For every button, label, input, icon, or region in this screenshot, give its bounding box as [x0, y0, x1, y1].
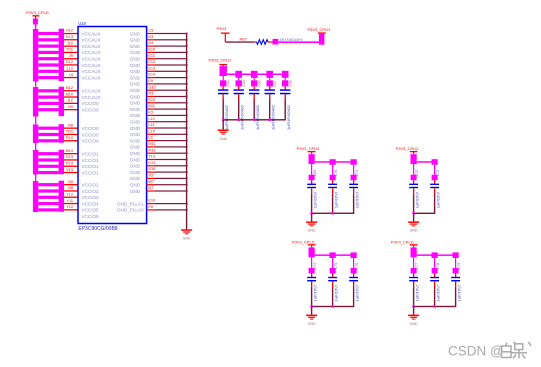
- svg-text:GND: GND: [308, 322, 316, 326]
- svg-text:1uF/16V/0402: 1uF/16V/0402: [286, 104, 291, 130]
- svg-text:VCCAUX: VCCAUX: [82, 89, 101, 94]
- svg-text:CSDN @: CSDN @: [448, 344, 504, 359]
- svg-text:E11: E11: [148, 54, 154, 58]
- svg-text:GND: GND: [130, 189, 141, 194]
- svg-text:1uF/16V/: 1uF/16V/: [457, 284, 462, 301]
- svg-text:VCCIO2: VCCIO2: [82, 189, 100, 194]
- svg-text:R11: R11: [66, 130, 73, 134]
- svg-text:GND: GND: [130, 82, 141, 87]
- svg-text:VCCIO0: VCCIO0: [82, 126, 100, 131]
- svg-text:P3V3_CPLD: P3V3_CPLD: [26, 10, 49, 15]
- svg-text:V13: V13: [66, 168, 73, 172]
- svg-text:G10: G10: [148, 85, 155, 89]
- svg-text:GND: GND: [130, 132, 141, 137]
- svg-text:1uF/16V/: 1uF/16V/: [415, 191, 420, 208]
- svg-text:H12: H12: [66, 29, 73, 33]
- svg-text:L9: L9: [69, 73, 73, 77]
- svg-text:P3V3_CPLD: P3V3_CPLD: [391, 239, 414, 244]
- svg-text:R67: R67: [240, 36, 248, 41]
- svg-text:VCCIO1: VCCIO1: [82, 158, 100, 163]
- svg-text:N7: N7: [148, 186, 153, 190]
- svg-text:K13: K13: [66, 35, 73, 39]
- svg-text:VCCAUX: VCCAUX: [82, 63, 101, 68]
- svg-text:GND: GND: [130, 157, 141, 162]
- svg-text:P3V3_CPLD: P3V3_CPLD: [396, 146, 419, 151]
- svg-text:J9: J9: [69, 54, 73, 58]
- svg-text:H9: H9: [68, 105, 73, 109]
- svg-text:1uF/16V/: 1uF/16V/: [334, 191, 339, 208]
- svg-text:VCCIO5: VCCIO5: [82, 208, 100, 213]
- svg-text:GND: GND: [130, 164, 141, 169]
- svg-text:C64: C64: [226, 80, 230, 87]
- svg-text:U13: U13: [148, 161, 155, 165]
- svg-text:GND: GND: [130, 183, 141, 188]
- svg-text:VCCAUX: VCCAUX: [82, 57, 101, 62]
- svg-text:GND: GND: [130, 101, 141, 106]
- svg-text:E14: E14: [148, 73, 155, 77]
- svg-text:GND_PLLA0: GND_PLLA0: [117, 208, 144, 213]
- svg-text:GND: GND: [130, 75, 141, 80]
- svg-text:GND: GND: [130, 145, 141, 150]
- svg-text:GND: GND: [130, 176, 141, 181]
- svg-text:GND: GND: [130, 113, 141, 118]
- svg-text:GND_PLLA1: GND_PLLA1: [117, 201, 144, 206]
- svg-text:GND: GND: [130, 31, 141, 36]
- svg-text:GND: GND: [130, 107, 141, 112]
- svg-text:E16: E16: [148, 199, 155, 203]
- svg-text:V3: V3: [148, 174, 153, 178]
- svg-text:VCCAUX: VCCAUX: [82, 38, 101, 43]
- svg-text:C68: C68: [288, 80, 292, 87]
- svg-text:VCCIO1: VCCIO1: [82, 164, 100, 169]
- svg-text:VCCIO1: VCCIO1: [82, 170, 100, 175]
- svg-text:1uF/16V/: 1uF/16V/: [355, 284, 360, 301]
- svg-text:GND: GND: [130, 38, 141, 43]
- svg-text:VCCAUX: VCCAUX: [82, 50, 101, 55]
- svg-text:VCCAUX: VCCAUX: [82, 95, 101, 100]
- svg-text:E13: E13: [148, 66, 155, 70]
- svg-text:M10: M10: [66, 92, 73, 96]
- svg-text:J12: J12: [67, 99, 73, 103]
- svg-text:K10: K10: [148, 98, 155, 102]
- svg-text:K13: K13: [66, 162, 73, 166]
- svg-text:GND: GND: [410, 229, 418, 233]
- svg-text:K3: K3: [148, 111, 153, 115]
- svg-text:4R7/0603/5%: 4R7/0603/5%: [280, 38, 304, 42]
- svg-text:GND: GND: [130, 94, 141, 99]
- svg-text:GND: GND: [130, 170, 141, 175]
- svg-text:VCCAUX: VCCAUX: [82, 75, 101, 80]
- svg-text:VCCIO0: VCCIO0: [82, 108, 100, 113]
- svg-text:P3V3_CPLD: P3V3_CPLD: [297, 146, 320, 151]
- svg-text:VCCAUX: VCCAUX: [82, 69, 101, 74]
- svg-text:VCCIO0: VCCIO0: [82, 101, 100, 106]
- svg-text:GND: GND: [130, 57, 141, 62]
- svg-text:1uF/16V/0402: 1uF/16V/0402: [255, 104, 260, 130]
- svg-text:P3V3_CPLD: P3V3_CPLD: [209, 57, 232, 62]
- svg-text:K12: K12: [66, 60, 73, 64]
- svg-text:R8: R8: [68, 123, 73, 127]
- svg-text:L10: L10: [148, 117, 154, 121]
- svg-text:U16: U16: [148, 167, 155, 171]
- svg-text:D3: D3: [148, 35, 153, 39]
- svg-text:GND: GND: [130, 151, 141, 156]
- svg-text:M13: M13: [66, 149, 73, 153]
- svg-text:GND: GND: [130, 126, 141, 131]
- svg-text:1uF/16V/: 1uF/16V/: [355, 191, 360, 208]
- svg-text:1uF/16V/: 1uF/16V/: [313, 191, 318, 208]
- svg-text:E13: E13: [66, 155, 73, 159]
- svg-text:C67: C67: [273, 80, 277, 87]
- svg-text:H3: H3: [148, 92, 153, 96]
- svg-text:VCCAUX: VCCAUX: [82, 31, 101, 36]
- svg-text:1uF/16V/: 1uF/16V/: [334, 284, 339, 301]
- svg-text:E10: E10: [148, 48, 155, 52]
- svg-text:GND: GND: [410, 322, 418, 326]
- svg-text:N8: N8: [68, 186, 73, 190]
- svg-text:VCCIO0: VCCIO0: [82, 139, 100, 144]
- svg-text:P11: P11: [67, 48, 73, 52]
- svg-text:VCCIO1: VCCIO1: [82, 152, 100, 157]
- svg-text:GND: GND: [183, 237, 191, 241]
- svg-text:L12: L12: [67, 67, 73, 71]
- svg-text:P3V3_CPLD: P3V3_CPLD: [292, 239, 315, 244]
- svg-text:GND: GND: [130, 44, 141, 49]
- svg-text:R10: R10: [66, 136, 73, 140]
- svg-text:E5: E5: [148, 205, 153, 209]
- svg-text:1uF/16V/: 1uF/16V/: [415, 284, 420, 301]
- svg-text:D4: D4: [148, 41, 153, 45]
- svg-text:VCCIO2: VCCIO2: [82, 183, 100, 188]
- svg-text:L11: L11: [148, 123, 154, 127]
- svg-text:E9: E9: [148, 79, 153, 83]
- svg-text:Y11: Y11: [67, 199, 73, 203]
- svg-text:U18: U18: [78, 21, 86, 26]
- svg-text:Y10: Y10: [66, 205, 73, 209]
- svg-text:E12: E12: [148, 60, 155, 64]
- svg-text:VCCIO0: VCCIO0: [82, 132, 100, 137]
- svg-text:GND: GND: [130, 50, 141, 55]
- svg-text:GND: GND: [308, 229, 316, 233]
- svg-text:1uF/16V/: 1uF/16V/: [313, 284, 318, 301]
- svg-text:GND: GND: [130, 63, 141, 68]
- svg-text:Y12: Y12: [66, 193, 73, 197]
- svg-text:1uF/16V/: 1uF/16V/: [436, 284, 441, 301]
- svg-text:C66: C66: [257, 80, 261, 87]
- svg-text:VCCAUX: VCCAUX: [82, 44, 101, 49]
- svg-text:GND: GND: [130, 138, 141, 143]
- svg-text:1uF/16V/: 1uF/16V/: [436, 191, 441, 208]
- svg-text:T13: T13: [148, 155, 155, 159]
- svg-text:VCCIO4: VCCIO4: [82, 201, 100, 206]
- svg-text:GND: GND: [130, 88, 141, 93]
- svg-text:C5: C5: [148, 29, 153, 33]
- svg-text:K11: K11: [148, 104, 154, 108]
- svg-text:1uF/16V/0402: 1uF/16V/0402: [240, 104, 245, 130]
- svg-text:1uF/16V/0402: 1uF/16V/0402: [271, 104, 276, 130]
- svg-text:W7: W7: [148, 180, 154, 184]
- svg-text:P3V3: P3V3: [217, 26, 228, 31]
- svg-text:VCCIO5: VCCIO5: [82, 214, 100, 219]
- svg-text:M12: M12: [66, 86, 73, 90]
- svg-text:R16: R16: [148, 148, 155, 152]
- svg-text:GND: GND: [130, 120, 141, 125]
- svg-text:N9: N9: [68, 180, 73, 184]
- svg-text:J10: J10: [67, 41, 73, 45]
- svg-text:EP3C90CG/00B8: EP3C90CG/00B8: [78, 226, 117, 232]
- svg-text:GND: GND: [130, 69, 141, 74]
- svg-text:VCCIO3: VCCIO3: [82, 195, 100, 200]
- svg-text:P3V3_CPLD: P3V3_CPLD: [308, 27, 331, 32]
- svg-text:GND: GND: [219, 137, 227, 141]
- svg-text:C65: C65: [242, 80, 246, 87]
- svg-text:1uF/16V/0402: 1uF/16V/0402: [224, 104, 229, 130]
- svg-text:M11: M11: [148, 142, 155, 146]
- svg-text:L14: L14: [148, 129, 154, 133]
- svg-text:L8: L8: [148, 136, 152, 140]
